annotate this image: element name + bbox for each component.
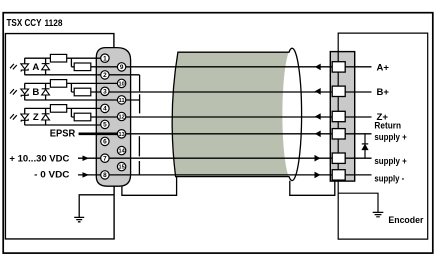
svg-text:9: 9	[120, 64, 124, 71]
resistor R1 channel B	[50, 80, 66, 88]
wire channel A signal line through pin 9 across cable	[71, 66, 371, 68]
diode channel Z	[45, 108, 47, 125]
pin 2 of SUB-D connector	[101, 71, 109, 79]
svg-text:supply +: supply +	[374, 132, 407, 142]
svg-text:7: 7	[103, 156, 107, 163]
svg-text:12: 12	[119, 115, 125, 121]
svg-text:+ 10...30 VDC: + 10...30 VDC	[9, 154, 69, 165]
shielded cable body	[172, 52, 292, 176]
diode channel B	[45, 83, 47, 100]
svg-text:4: 4	[103, 106, 107, 113]
optocoupler light arrows channel A	[10, 64, 17, 70]
pin 7 of SUB-D connector	[101, 154, 109, 162]
svg-text:3: 3	[103, 89, 107, 96]
wire channel Z left branch	[24, 108, 26, 125]
wire channel B bottom (to pin 11)	[25, 99, 140, 101]
resistor R2 channel B	[74, 88, 91, 96]
resistor R2 channel Z	[74, 113, 91, 121]
pin 1 of SUB-D connector	[101, 54, 109, 62]
shielded cable end cap lens	[282, 48, 301, 180]
pin 6 of SUB-D connector	[101, 137, 109, 145]
svg-text:15: 15	[119, 165, 125, 171]
wire pin 2 link to B+ line	[139, 75, 141, 91]
pin 9 of SUB-D connector	[117, 63, 125, 71]
arrow Return signal toward module	[315, 131, 320, 137]
wire Return line pin 13 across cable	[122, 133, 372, 135]
arrow A+ signal toward module	[315, 64, 320, 70]
zener diode channel Z	[21, 114, 29, 119]
pin 11 of SUB-D connector	[117, 96, 125, 104]
wire channel Z bottom (to pin 5)	[25, 124, 105, 126]
svg-text:5: 5	[103, 122, 107, 129]
arrow supply + input	[83, 156, 88, 161]
wire channel A divider branch	[70, 58, 72, 67]
diode EPSR sense at encoder	[362, 145, 368, 150]
wire Return to supply + sense branch	[364, 134, 366, 158]
wire pin 11 link toward Z+ line	[139, 94, 141, 113]
wire supply - from terminal to pin 8 across cable	[78, 174, 372, 176]
wire channel Z signal line through pin 12 across cable	[71, 116, 371, 118]
svg-text:11: 11	[119, 98, 125, 104]
diode channel A	[45, 58, 47, 75]
encoder terminal strip	[330, 52, 354, 182]
wire module ground branch	[79, 195, 114, 217]
arrow Z+ signal toward module	[315, 114, 320, 120]
svg-text:10: 10	[119, 82, 125, 88]
ground (module functional earth)	[74, 217, 84, 221]
shielded cable body outline	[172, 52, 289, 176]
svg-text:TSX CCY: TSX CCY	[7, 18, 42, 29]
svg-text:supply +: supply +	[374, 156, 407, 166]
wire supply + from terminal to pin 7 across cable	[78, 157, 372, 159]
resistor R1 channel A	[50, 54, 66, 62]
wire pair marker supply+/supply-	[138, 161, 140, 175]
pin 4 of SUB-D connector	[101, 104, 109, 112]
wire channel A top (to pin 1)	[25, 57, 105, 59]
svg-text:B+: B+	[377, 87, 390, 98]
pin 8 of SUB-D connector	[101, 171, 109, 179]
resistor R1 channel Z	[50, 105, 66, 113]
wire channel A bottom (to pin 2)	[25, 74, 140, 76]
svg-text:1128: 1128	[45, 18, 63, 28]
svg-text:supply -: supply -	[374, 173, 404, 183]
terminal supply + on encoder strip	[332, 153, 345, 163]
arrow supply - toward encoder	[315, 172, 320, 178]
svg-text:- 0 VDC: - 0 VDC	[34, 169, 69, 180]
pin 3 of SUB-D connector	[101, 87, 109, 95]
wire channel B signal line through pin 3 across cable	[71, 91, 371, 93]
pin 10 of SUB-D connector	[117, 79, 125, 87]
wire channel B divider branch	[70, 83, 72, 92]
shielded cable end cap arc	[289, 48, 302, 180]
svg-text:13: 13	[119, 132, 125, 138]
svg-text:1: 1	[103, 56, 107, 63]
terminal Z+ on encoder strip	[332, 111, 345, 121]
wire EPSR to pin 13 (bold)	[79, 133, 122, 136]
svg-text:A+: A+	[377, 63, 390, 74]
wire pair marker Return/supply+	[138, 136, 140, 156]
encoder boundary box	[338, 33, 428, 239]
arrow supply - input	[83, 173, 88, 178]
zener diode channel A	[21, 64, 29, 69]
terminal B+ on encoder strip	[332, 86, 345, 96]
svg-text:A: A	[32, 62, 39, 73]
terminal A+ on encoder strip	[332, 62, 345, 72]
svg-text:Return: Return	[374, 121, 401, 131]
wire cable shield to encoder terminal block	[290, 181, 335, 196]
optocoupler light arrows channel B	[10, 89, 17, 95]
arrow supply + toward encoder	[315, 155, 320, 161]
svg-text:EPSR: EPSR	[50, 129, 76, 140]
pin 12 of SUB-D connector	[117, 112, 125, 120]
wire channel Z divider branch	[70, 108, 72, 117]
svg-text:Encoder: Encoder	[388, 215, 423, 225]
wire cable shield to module connector	[122, 177, 177, 196]
terminal Return supply + on encoder strip	[332, 129, 345, 139]
svg-text:8: 8	[103, 172, 107, 179]
pin 15 of SUB-D connector	[117, 162, 125, 170]
module TSX CCY 1128 boundary box	[5, 34, 114, 239]
svg-text:6: 6	[103, 139, 107, 146]
optocoupler light arrows channel Z	[10, 114, 17, 120]
ground (encoder)	[373, 212, 384, 216]
connector SUB-D 15 on module	[96, 48, 130, 187]
wire channel B top (to pin 10)	[25, 82, 122, 84]
svg-text:Z: Z	[33, 112, 39, 123]
pin 5 of SUB-D connector	[101, 120, 109, 128]
wire channel Z top (to pin 4)	[25, 107, 105, 109]
zener diode channel B	[21, 89, 29, 94]
wire channel A left branch	[24, 58, 26, 75]
pin 13 of SUB-D connector	[117, 130, 125, 138]
svg-text:2: 2	[103, 72, 107, 79]
wire encoder case ground branch	[338, 193, 378, 212]
terminal supply - on encoder strip	[332, 170, 345, 180]
pin 14 of SUB-D connector	[117, 146, 125, 154]
svg-text:14: 14	[119, 149, 126, 155]
arrow B+ signal toward module	[315, 89, 320, 95]
svg-text:B: B	[32, 87, 39, 98]
resistor R2 channel A	[74, 63, 91, 71]
wire channel B left branch	[24, 83, 26, 100]
